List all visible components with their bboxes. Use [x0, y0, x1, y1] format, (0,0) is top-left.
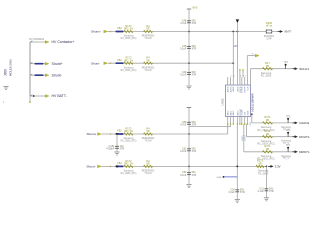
svg-text:Shunt-: Shunt- [91, 61, 100, 65]
svg-text:HV Contactor+: HV Contactor+ [52, 40, 75, 44]
svg-text:U300: U300 [220, 98, 224, 105]
svg-text:DRDY: DRDY [242, 134, 244, 140]
svg-text:0R1 1%: 0R1 1% [124, 130, 134, 133]
svg-text:7: 7 [245, 76, 246, 78]
svg-text:+5V0: +5V0 [192, 6, 198, 9]
svg-text:0R1 1%: 0R1 1% [124, 28, 134, 31]
svg-text:4700pF: 4700pF [106, 148, 115, 151]
svg-text:SCLK1: SCLK1 [299, 67, 309, 71]
svg-text:0R: 0R [146, 163, 149, 166]
svg-text:0R: 0R [266, 118, 269, 122]
svg-text:RC_0603: RC_0603 [261, 75, 272, 78]
svg-text:TN 1W: TN 1W [144, 70, 152, 72]
svg-text:X7R: X7R [240, 191, 245, 194]
svg-text:X7R: X7R [192, 124, 197, 127]
svg-text:FB2: FB2 [117, 59, 122, 62]
svg-text:Shunt-: Shunt- [52, 73, 63, 77]
svg-text:J300: J300 [3, 69, 7, 76]
svg-text:3.3V: 3.3V [275, 165, 281, 169]
svg-text:TP_S: TP_S [283, 158, 289, 160]
svg-text:uF ss: uF ss [266, 24, 273, 28]
svg-text:AINP: AINP [232, 86, 235, 92]
svg-text:AIN0: AIN0 [227, 110, 230, 116]
svg-text:DRDY1: DRDY1 [299, 150, 310, 154]
svg-text:X7R: X7R [192, 74, 197, 77]
svg-text:SDA: SDA [246, 110, 249, 115]
svg-text:X7R: X7R [192, 150, 197, 153]
svg-text:X7R: X7R [192, 174, 197, 177]
svg-text:0R: 0R [266, 64, 269, 68]
svg-text:NO HARNESS: NO HARNESS [29, 38, 45, 41]
svg-text:MOLEX 5566: MOLEX 5566 [8, 59, 12, 76]
svg-text:GND: GND [217, 177, 222, 179]
svg-text:X7R: X7R [269, 190, 274, 193]
svg-text:0.1uF: 0.1uF [180, 48, 187, 51]
svg-text:CAP: CAP [266, 38, 271, 41]
svg-text:0R: 0R [266, 132, 269, 136]
svg-text:TN 1W: TN 1W [144, 173, 152, 175]
svg-text:4.7uF: 4.7uF [180, 22, 187, 25]
svg-text:2: 2 [231, 76, 232, 78]
svg-text:FB2: FB2 [117, 130, 122, 133]
svg-text:REFP: REFP [245, 86, 247, 92]
svg-text:Shunt+: Shunt+ [87, 132, 97, 136]
svg-text:0.1uF: 0.1uF [229, 191, 236, 194]
svg-text:0R: 0R [146, 59, 149, 62]
svg-text:RC_0603_(RC): RC_0603_(RC) [257, 158, 274, 161]
svg-text:FB2: FB2 [117, 27, 122, 30]
svg-text:0R1 1%: 0R1 1% [124, 163, 134, 166]
svg-text:TP5: TP5 [286, 115, 291, 118]
svg-text:TN 1W: TN 1W [144, 38, 152, 40]
svg-text:AIN1: AIN1 [229, 110, 232, 116]
svg-text:RC_0603_(RC): RC_0603_(RC) [121, 173, 137, 175]
svg-text:TN_0603: TN_0603 [258, 172, 269, 175]
svg-text:5: 5 [240, 76, 241, 78]
svg-text:0.1uF: 0.1uF [180, 174, 187, 177]
svg-text:TP4: TP4 [283, 61, 288, 64]
svg-text:4.7uF: 4.7uF [180, 124, 187, 127]
svg-text:Shunt-: Shunt- [87, 165, 96, 169]
svg-text:AVSS: AVSS [229, 86, 232, 92]
svg-text:RC_0603_(RC): RC_0603_(RC) [121, 70, 137, 72]
svg-text:0.1uF: 0.1uF [180, 150, 187, 153]
svg-text:0R: 0R [146, 130, 149, 133]
svg-text:0.1uF: 0.1uF [258, 190, 265, 193]
svg-text:VBATT: VBATT [284, 31, 292, 34]
svg-text:X7R: X7R [192, 22, 197, 25]
svg-text:X7R: X7R [192, 48, 197, 51]
svg-text:0R: 0R [258, 162, 261, 166]
svg-text:0.1uF: 0.1uF [180, 74, 187, 77]
svg-text:0R: 0R [266, 147, 269, 151]
svg-text:Shunt+: Shunt+ [52, 62, 63, 66]
svg-text:DVDD: DVDD [242, 86, 244, 93]
svg-text:C2AN1: C2AN1 [299, 121, 309, 125]
svg-text:DOUT: DOUT [245, 134, 247, 140]
svg-text:ADS1219IPWR: ADS1219IPWR [251, 93, 255, 112]
svg-text:AIN2: AIN2 [232, 110, 235, 116]
svg-text:HV BATT-: HV BATT- [52, 94, 68, 98]
svg-text:RC_0603_(RC): RC_0603_(RC) [121, 38, 137, 40]
svg-text:3: 3 [233, 76, 234, 78]
svg-text:CLK: CLK [247, 86, 249, 91]
svg-text:Shunt+: Shunt+ [91, 30, 101, 34]
svg-text:TP6: TP6 [286, 129, 291, 132]
svg-text:+5V: +5V [233, 45, 238, 48]
svg-text:TN 1W: TN 1W [144, 141, 152, 143]
svg-text:RC_0603_(RC): RC_0603_(RC) [121, 141, 137, 143]
svg-text:DOUT1: DOUT1 [299, 135, 310, 139]
svg-text:VCAP: VCAP [241, 109, 244, 115]
svg-text:FB2: FB2 [117, 162, 122, 165]
svg-text:AVDD: AVDD [227, 86, 230, 92]
svg-text:0R1 1%: 0R1 1% [124, 59, 134, 62]
svg-text:X7R: X7R [120, 148, 125, 151]
svg-text:TP7: TP7 [286, 144, 291, 147]
svg-text:0R: 0R [146, 28, 149, 31]
